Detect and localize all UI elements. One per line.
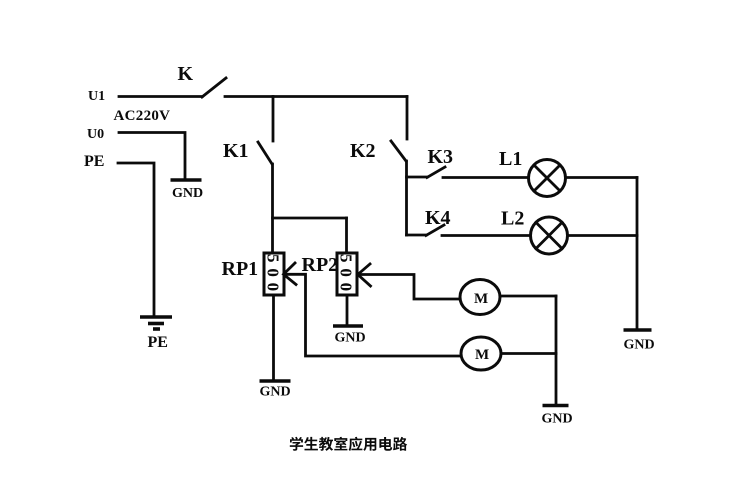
wire RP1 wiper to motor M2 — [285, 274, 462, 356]
svg-text:K4: K4 — [425, 207, 451, 229]
potentiometer RP1 wiper arrow — [284, 263, 297, 285]
svg-text:PE: PE — [84, 153, 104, 170]
ground GND (RP2) — [333, 324, 363, 328]
svg-text:GND: GND — [624, 338, 655, 353]
svg-text:L1: L1 — [499, 148, 522, 170]
wire lamp bus vertical — [636, 178, 639, 331]
wire RP1 bottom — [272, 295, 275, 380]
svg-text:GND: GND — [172, 186, 203, 201]
wire motor bus vertical — [555, 296, 558, 405]
wire K1 drop — [272, 97, 275, 142]
svg-text:GND: GND — [542, 412, 573, 427]
potentiometer RP2 body — [337, 253, 357, 295]
ground GND (motors) — [543, 404, 569, 408]
lamp L1 — [529, 160, 566, 197]
wire M2 to motor bus — [501, 352, 556, 355]
svg-text:RP2: RP2 — [302, 254, 339, 276]
wire RP2 bottom — [346, 295, 349, 326]
switch K3 blade — [427, 167, 445, 178]
svg-text:U1: U1 — [88, 89, 105, 104]
svg-text:L2: L2 — [501, 208, 524, 230]
svg-text:500: 500 — [264, 254, 283, 297]
wire PE lead — [118, 163, 154, 317]
ground GND (lamps) — [624, 328, 652, 332]
wire K4 to L2 — [442, 234, 531, 237]
ground GND (RP1) — [260, 379, 291, 383]
svg-text:AC220V: AC220V — [114, 108, 171, 124]
wire U0 lead — [119, 133, 185, 181]
wire K3 to L1 — [443, 176, 529, 179]
potentiometer RP1 body — [264, 253, 284, 295]
title 学生教室应用电路 — [290, 437, 407, 451]
potentiometer RP2 wiper arrow — [358, 264, 371, 286]
svg-text:GND: GND — [260, 385, 291, 400]
ground GND (AC source) — [171, 178, 202, 182]
wire RP2 wiper to motor M1 — [359, 275, 461, 300]
wire U1 lead — [119, 95, 202, 98]
svg-text:M: M — [475, 347, 489, 363]
wire M1 to motor bus — [500, 295, 556, 298]
svg-text:RP1: RP1 — [222, 258, 259, 280]
wire K1 to RP1 — [271, 164, 274, 253]
svg-text:K1: K1 — [223, 140, 249, 162]
wire K2 drop — [406, 97, 409, 140]
wire RP2 drop — [345, 218, 348, 253]
wire L1 to lamp bus — [566, 176, 638, 179]
svg-text:500: 500 — [337, 254, 356, 297]
wire top bus — [225, 95, 407, 98]
lamp L2 — [531, 217, 568, 254]
wire K3 lead — [407, 176, 428, 179]
svg-text:K: K — [178, 63, 194, 85]
svg-text:M: M — [474, 291, 488, 307]
switch K blade — [202, 78, 226, 97]
switch K2 blade — [391, 141, 406, 161]
motor M1 — [460, 280, 500, 315]
svg-text:K3: K3 — [428, 146, 454, 168]
motor M2 — [461, 337, 501, 370]
switch K1 blade — [258, 142, 272, 164]
svg-text:U0: U0 — [87, 127, 104, 142]
earth ground PE symbol — [140, 315, 172, 319]
svg-text:GND: GND — [335, 331, 366, 346]
wire K2 vertical — [405, 161, 408, 235]
switch K4 blade — [426, 225, 444, 236]
svg-text:K2: K2 — [350, 140, 376, 162]
wire junction RP1-RP2 crossbar — [273, 217, 347, 220]
wire K4 lead — [407, 234, 427, 237]
svg-text:PE: PE — [148, 334, 168, 351]
wire L2 to lamp bus — [568, 234, 638, 237]
